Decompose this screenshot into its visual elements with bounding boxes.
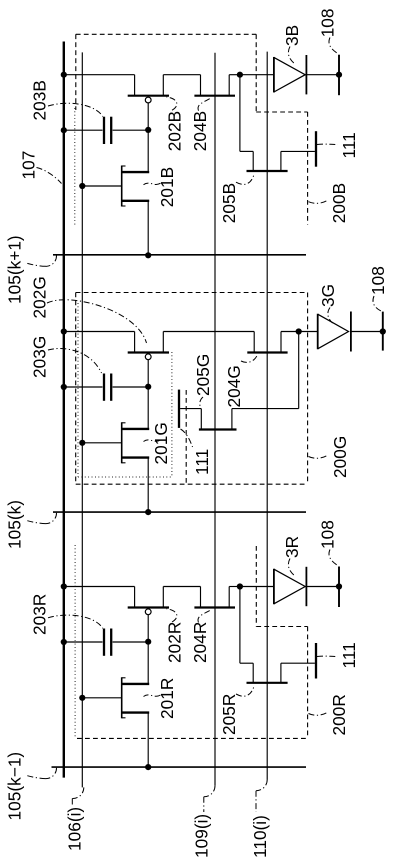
light-emitting element 3R triangle (274, 569, 305, 604)
transistor 201B gate bar top tick (122, 165, 126, 167)
terminal 111 bar (G pixel) (178, 390, 180, 428)
svg-text:205G: 205G (193, 354, 213, 396)
light-emitting element 3G triangle (318, 314, 349, 349)
svg-text:107: 107 (19, 151, 39, 180)
svg-text:202G: 202G (30, 276, 50, 318)
svg-text:105(k): 105(k) (5, 500, 25, 549)
transistor 205G left lead (200, 409, 202, 430)
wire anode node to 205B (239, 75, 241, 152)
junction dot on scan line (145, 764, 151, 770)
transistor 202R drain lead (162, 587, 164, 608)
wire capacitor 203R to storage node (113, 641, 149, 643)
transistor 202G gate bubble (145, 354, 151, 360)
svg-text:3G: 3G (318, 284, 338, 307)
capacitor 203B plate 2 (110, 117, 112, 144)
scan line 105(k+1) (53, 254, 306, 256)
wire 205G to terminal 111 (180, 408, 201, 410)
light-emitting element 3R cathode bar (305, 567, 307, 606)
wire 202B drain to 204B (163, 74, 200, 76)
svg-text:108: 108 (318, 520, 338, 549)
wire 106(i) to 201R gate (82, 697, 121, 699)
junction dot on 106(i) for 201B gate (79, 183, 85, 189)
transistor 205B channel bar (247, 170, 288, 172)
transistor 201G gate bar bottom tick (122, 462, 126, 464)
wire 202G source to power line 107 (64, 331, 135, 333)
svg-text:109(i): 109(i) (192, 814, 212, 858)
junction dot on line 108 (G) (380, 328, 386, 334)
svg-text:201R: 201R (157, 678, 177, 719)
transistor 204B channel bar (194, 95, 235, 97)
svg-text:203G: 203G (30, 336, 50, 378)
svg-text:3B: 3B (282, 25, 302, 46)
svg-text:3R: 3R (282, 536, 302, 558)
transistor 202R source lead (134, 587, 136, 608)
dotted box around 201G (memory portion) (77, 303, 79, 477)
transistor 201R gate bar bottom tick (122, 717, 126, 719)
node: 107 to 202G source, junction on 107 (61, 328, 67, 334)
transistor 201B drain lead (thick) (122, 171, 149, 173)
transistor 205G channel bar (199, 428, 237, 430)
junction dot on scan line (145, 509, 151, 515)
svg-text:205R: 205R (219, 694, 239, 735)
wire 202G gate to storage node (147, 360, 149, 387)
capacitor 203R plate 1 (103, 629, 105, 656)
anode node junction dot (G) (296, 328, 302, 334)
junction dot on 106(i) for 201R gate (79, 695, 85, 701)
wire capacitor 203B to storage node (113, 129, 149, 131)
anode node junction dot (237, 72, 243, 78)
transistor 201R gate bar top tick (122, 677, 126, 679)
anode node junction dot (237, 583, 243, 589)
light-emitting element 3R anode bar (273, 569, 275, 605)
capacitor 203R plate 2 (110, 629, 112, 656)
junction dot on scan line (145, 252, 151, 258)
transistor 202B drain lead (162, 75, 164, 96)
svg-text:110(i): 110(i) (250, 815, 270, 858)
transistor 204B left lead (200, 75, 202, 96)
wire 204B to anode node (229, 74, 240, 76)
transistor 201G drain lead (thick) (122, 428, 149, 430)
wire 106(i) to 201B gate (82, 185, 121, 187)
light-emitting element 3G cathode bar (350, 312, 352, 352)
transistor 201G gate bar top tick (122, 422, 126, 424)
wire storage node to 201G drain (147, 387, 149, 429)
transistor 202R channel bar (128, 606, 169, 608)
storage node junction dot (145, 639, 151, 645)
storage node junction dot (145, 127, 151, 133)
wire 202G drain to 204G (163, 331, 254, 333)
wire anode node to light-emitting element 3B (240, 74, 274, 76)
svg-text:203B: 203B (30, 80, 50, 120)
wire 201B source to scan line (147, 201, 149, 256)
transistor 201G source lead (thick) (122, 456, 149, 458)
capacitor 203G plate 1 (103, 374, 105, 401)
junction dot on 107 at capacitor 203B (61, 127, 67, 133)
transistor 205B right lead (280, 151, 282, 171)
signal line 109(i) (214, 53, 216, 786)
wire 107 to capacitor 203G (64, 386, 103, 388)
svg-text:203R: 203R (30, 594, 50, 635)
svg-text:105(k−1): 105(k−1) (5, 752, 25, 821)
junction dot on 107 at capacitor 203G (61, 384, 67, 390)
transistor 201R source lead (thick) (122, 711, 149, 713)
svg-text:200R: 200R (329, 694, 349, 735)
wire 107 to capacitor 203R (64, 641, 103, 643)
wire 202B gate to storage node (147, 103, 149, 130)
transistor 201B gate bar bottom tick (122, 205, 126, 207)
transistor 204R right lead (228, 587, 230, 608)
transistor 204G channel bar (247, 351, 287, 353)
dotted boundary in R section (74, 545, 76, 737)
wire storage node to 201R drain (147, 642, 149, 684)
pixel circuit box 200B (dashed) (76, 33, 256, 35)
svg-text:111: 111 (339, 642, 359, 668)
transistor 201B source lead (thick) (122, 200, 149, 202)
light-emitting element 3B anode bar (273, 57, 275, 92)
svg-text:108: 108 (318, 8, 338, 37)
svg-text:204R: 204R (190, 622, 210, 663)
svg-text:204G: 204G (224, 365, 244, 407)
transistor 202G drain lead (162, 332, 164, 353)
svg-text:204B: 204B (190, 111, 210, 151)
wire 205B to terminal 111 (281, 150, 315, 152)
wire 204R to anode node (229, 586, 240, 588)
svg-text:205B: 205B (219, 183, 239, 223)
inner dashed divider in G section (185, 390, 187, 484)
transistor 202G channel bar (128, 351, 169, 353)
wire anode node to light-emitting element 3R (240, 586, 274, 588)
transistor 201R drain lead (thick) (122, 683, 149, 685)
wire cathode to line 108 (G) (351, 331, 383, 333)
capacitor 203B plate 1 (103, 117, 105, 144)
light-emitting element 3G anode bar (317, 314, 319, 350)
wire 202R gate to storage node (147, 615, 149, 642)
junction dot on 106(i) for 201G gate (79, 440, 85, 446)
svg-text:111: 111 (339, 132, 359, 158)
svg-text:200B: 200B (329, 183, 349, 223)
transistor 202G source lead (134, 332, 136, 353)
cathode line 108 segment (R pixel) (338, 567, 340, 608)
transistor 202B gate bubble (145, 97, 151, 103)
light-emitting element 3B triangle (274, 57, 305, 92)
dotted boundary in B section (74, 108, 76, 227)
transistor 202R gate bubble (145, 609, 151, 615)
wire 204G to anode node (281, 331, 299, 333)
terminal 111 bar (B pixel) (315, 131, 317, 167)
wire 205R to terminal 111 (281, 662, 315, 664)
wire 202R drain to 204R (163, 586, 200, 588)
svg-text:201B: 201B (157, 167, 177, 207)
junction dot on line 108 (336, 72, 342, 78)
wire cathode to line 108 (306, 586, 339, 588)
wire 107 to capacitor 203B (64, 129, 103, 131)
transistor 201G gate bar (121, 422, 123, 463)
node: 107 to 202B source, junction on 107 (61, 72, 67, 78)
cathode line 108 segment (G pixel) (382, 312, 384, 351)
junction dot on 107 at capacitor 203R (61, 639, 67, 645)
transistor 205R right lead (280, 663, 282, 683)
capacitor 203G plate 2 (110, 374, 112, 401)
svg-text:201G: 201G (151, 422, 171, 464)
transistor 204G left lead (253, 332, 255, 353)
scan line 105(k) (53, 511, 306, 513)
signal line 106(i) (81, 52, 83, 787)
transistor 202B source lead (134, 75, 136, 96)
power supply line 107 (thick vertical) (63, 42, 65, 778)
wire anode node to light-emitting element 3G (299, 331, 318, 333)
svg-text:200G: 200G (330, 436, 350, 478)
wire anode node to 205G (298, 332, 300, 409)
svg-text:202R: 202R (165, 622, 185, 663)
wire storage node to 201B drain (147, 130, 149, 172)
transistor 204G right lead (280, 332, 282, 353)
light-emitting element 3B cathode bar (305, 55, 307, 94)
wire 201G source to scan line (147, 458, 149, 512)
transistor 201B gate bar (121, 166, 123, 207)
scan line 105(k-1) (52, 766, 307, 768)
transistor 204R channel bar (194, 606, 235, 608)
junction dot on line 108 (336, 583, 342, 589)
pixel circuit box 200G (dashed) (76, 292, 308, 294)
wire cathode to line 108 (306, 74, 339, 76)
wire 202B source to power line 107 (64, 74, 135, 76)
signal line 110(i) (266, 52, 268, 780)
wire 202R source to power line 107 (64, 586, 135, 588)
svg-text:105(k+1): 105(k+1) (5, 235, 25, 304)
wire 106(i) to 201G gate (82, 442, 121, 444)
transistor 202B channel bar (128, 95, 169, 97)
transistor 204B right lead (228, 75, 230, 96)
transistor 205R channel bar (247, 682, 288, 684)
node: 107 to 202R source, junction on 107 (61, 583, 67, 589)
wire anode node to 205R (239, 587, 241, 664)
wire capacitor 203G to storage node (113, 386, 149, 388)
svg-text:106(i): 106(i) (65, 807, 85, 851)
svg-text:108: 108 (368, 266, 388, 295)
storage node junction dot (145, 384, 151, 390)
transistor 204R left lead (200, 587, 202, 608)
cathode line 108 segment (B pixel) (338, 55, 340, 95)
terminal 111 bar (R pixel) (315, 643, 317, 679)
wire 201R source to scan line (147, 713, 149, 768)
svg-text:111: 111 (192, 449, 212, 475)
pixel circuit box 200R (dashed) (255, 546, 257, 627)
transistor 201R gate bar (121, 677, 123, 718)
svg-text:202B: 202B (165, 111, 185, 151)
